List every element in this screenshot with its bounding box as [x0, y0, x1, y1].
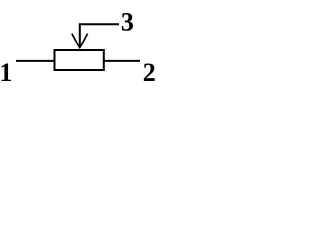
- wire wiper to terminal 3: [80, 24, 119, 46]
- wire terminal 2 lead: [104, 60, 140, 62]
- wire terminal 1 lead: [16, 60, 54, 62]
- svg-text:1: 1: [0, 58, 12, 87]
- potentiometer body R (rectangle): [55, 50, 104, 70]
- svg-text:2: 2: [143, 58, 156, 87]
- wiper arrowhead: [72, 34, 88, 48]
- svg-text:3: 3: [121, 7, 134, 36]
